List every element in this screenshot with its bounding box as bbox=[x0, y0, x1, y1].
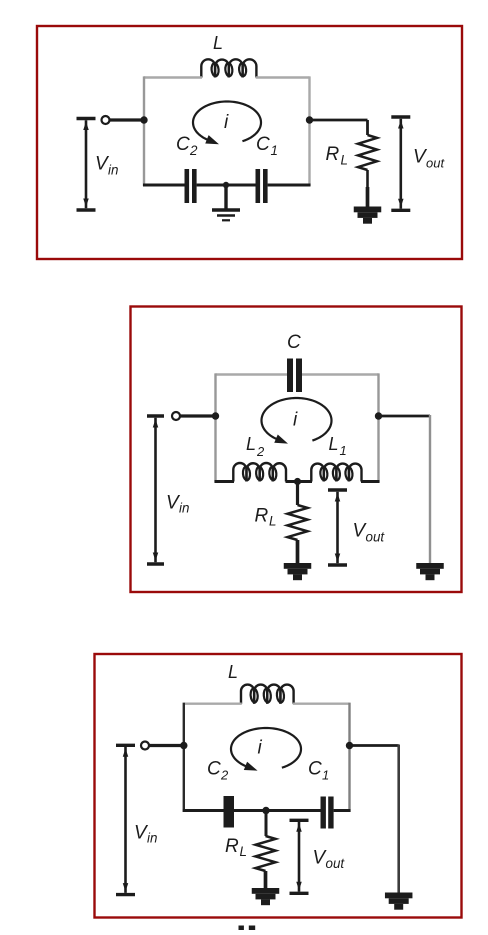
svg-text:1: 1 bbox=[271, 143, 278, 158]
wire bottom rail seg3 bbox=[361, 480, 380, 483]
ground (earth) bbox=[224, 185, 227, 210]
wire bottom rail seg3 bbox=[268, 184, 311, 187]
capacitor C1 bbox=[256, 169, 261, 203]
wire bottom rail seg2 bbox=[234, 809, 321, 812]
clipped caption text bbox=[239, 926, 244, 931]
node right bbox=[375, 412, 382, 419]
loop arrow i bbox=[193, 102, 261, 142]
node center bbox=[262, 807, 269, 814]
inductor L2 bbox=[233, 463, 246, 482]
svg-text:L: L bbox=[269, 514, 276, 529]
Vin dimension line bbox=[147, 414, 164, 417]
capacitor C1 bbox=[321, 797, 326, 829]
wire top rail left (gray) bbox=[144, 76, 202, 78]
svg-text:out: out bbox=[426, 156, 445, 171]
svg-text:2: 2 bbox=[220, 768, 229, 783]
svg-text:L: L bbox=[213, 33, 223, 53]
svg-text:L: L bbox=[240, 844, 247, 859]
node ground junction bbox=[223, 182, 229, 188]
capacitor C2 bbox=[224, 796, 235, 828]
wire left vertical (gray) bbox=[214, 373, 216, 482]
wire left vertical (gray) bbox=[143, 76, 145, 186]
wire top rail right (gray) bbox=[302, 373, 379, 375]
node left bbox=[140, 116, 147, 123]
ground solid right bbox=[385, 893, 413, 899]
inductor L bbox=[201, 59, 215, 77]
svg-text:R: R bbox=[225, 836, 239, 857]
node center bbox=[294, 478, 301, 485]
figure box 3 bbox=[95, 654, 462, 918]
inductor L1 bbox=[311, 464, 324, 482]
ground solid center bbox=[284, 563, 312, 569]
wire top rail right (gray) bbox=[293, 703, 350, 705]
wire top rail right (gray) bbox=[256, 76, 310, 78]
svg-text:2: 2 bbox=[189, 143, 198, 158]
svg-text:2: 2 bbox=[256, 444, 265, 459]
svg-text:L: L bbox=[329, 434, 339, 454]
wire bottom rail seg2 bbox=[197, 184, 256, 187]
Vin dimension line bbox=[77, 117, 96, 120]
input terminal circle bbox=[102, 116, 110, 124]
wire right vertical (gray) bbox=[348, 703, 350, 812]
wire right branch bbox=[350, 744, 399, 747]
wire right branch bbox=[379, 415, 431, 418]
wire bottom rail seg1 bbox=[215, 480, 235, 483]
wire far right vertical (dark) bbox=[397, 745, 400, 894]
Vout dimension line bbox=[391, 115, 410, 118]
resistor RL bbox=[256, 836, 276, 871]
svg-text:1: 1 bbox=[340, 443, 347, 458]
svg-text:L: L bbox=[246, 434, 256, 454]
wire far right vertical (gray) bbox=[429, 415, 431, 564]
capacitor C2 bbox=[185, 169, 190, 203]
svg-text:out: out bbox=[366, 530, 386, 545]
Vout dimension line bbox=[328, 488, 347, 491]
wire RL to ground bbox=[296, 540, 300, 564]
wire RL to ground bbox=[264, 871, 268, 889]
resistor RL bbox=[288, 505, 308, 540]
svg-text:L: L bbox=[341, 153, 348, 168]
svg-text:in: in bbox=[108, 163, 118, 178]
wire left vertical (black) bbox=[183, 703, 185, 812]
capacitor C bbox=[287, 359, 293, 393]
ground solid center bbox=[252, 888, 280, 894]
wire right vertical (gray) bbox=[377, 373, 379, 482]
wire input bbox=[180, 414, 217, 417]
svg-text:in: in bbox=[179, 501, 189, 516]
svg-text:C: C bbox=[176, 134, 190, 155]
wire right vertical (gray) bbox=[308, 76, 310, 186]
wire bottom rail seg3 bbox=[334, 809, 351, 812]
ground solid right bbox=[416, 563, 444, 569]
Vin dimension line bbox=[116, 744, 135, 747]
figure box 1 bbox=[37, 26, 462, 259]
svg-text:1: 1 bbox=[322, 768, 329, 783]
wire RL to ground bbox=[366, 170, 369, 190]
wire bottom rail seg1 bbox=[183, 809, 224, 812]
wire input bbox=[149, 744, 186, 747]
svg-text:C: C bbox=[207, 759, 221, 780]
node left bbox=[180, 742, 187, 749]
svg-text:L: L bbox=[228, 662, 238, 682]
wire bottom rail seg2 bbox=[286, 480, 313, 483]
figure box 2 bbox=[131, 307, 462, 593]
input terminal circle bbox=[172, 412, 180, 420]
wire input bbox=[110, 118, 146, 121]
node right bbox=[346, 742, 353, 749]
resistor RL bbox=[358, 135, 377, 170]
wire top rail left (gray) bbox=[185, 703, 242, 705]
Vout dimension line bbox=[290, 819, 309, 822]
svg-text:R: R bbox=[326, 144, 340, 165]
wire bottom rail seg1 bbox=[143, 184, 185, 187]
svg-text:C: C bbox=[308, 759, 322, 780]
ground solid right bbox=[354, 207, 382, 213]
wire to RL bbox=[310, 119, 368, 122]
inductor L bbox=[241, 685, 254, 704]
loop arrow i bbox=[231, 728, 301, 768]
svg-text:out: out bbox=[326, 856, 346, 871]
wire top rail left (gray) bbox=[216, 373, 288, 375]
svg-text:in: in bbox=[147, 831, 157, 846]
node left bbox=[212, 412, 219, 419]
input terminal circle bbox=[141, 742, 149, 750]
wire RL lead bbox=[265, 811, 268, 837]
svg-text:C: C bbox=[287, 332, 301, 353]
node right bbox=[306, 116, 313, 123]
loop arrow i bbox=[262, 398, 332, 441]
svg-text:R: R bbox=[255, 506, 269, 527]
wire RL lead bbox=[296, 482, 299, 506]
svg-text:C: C bbox=[256, 134, 270, 155]
